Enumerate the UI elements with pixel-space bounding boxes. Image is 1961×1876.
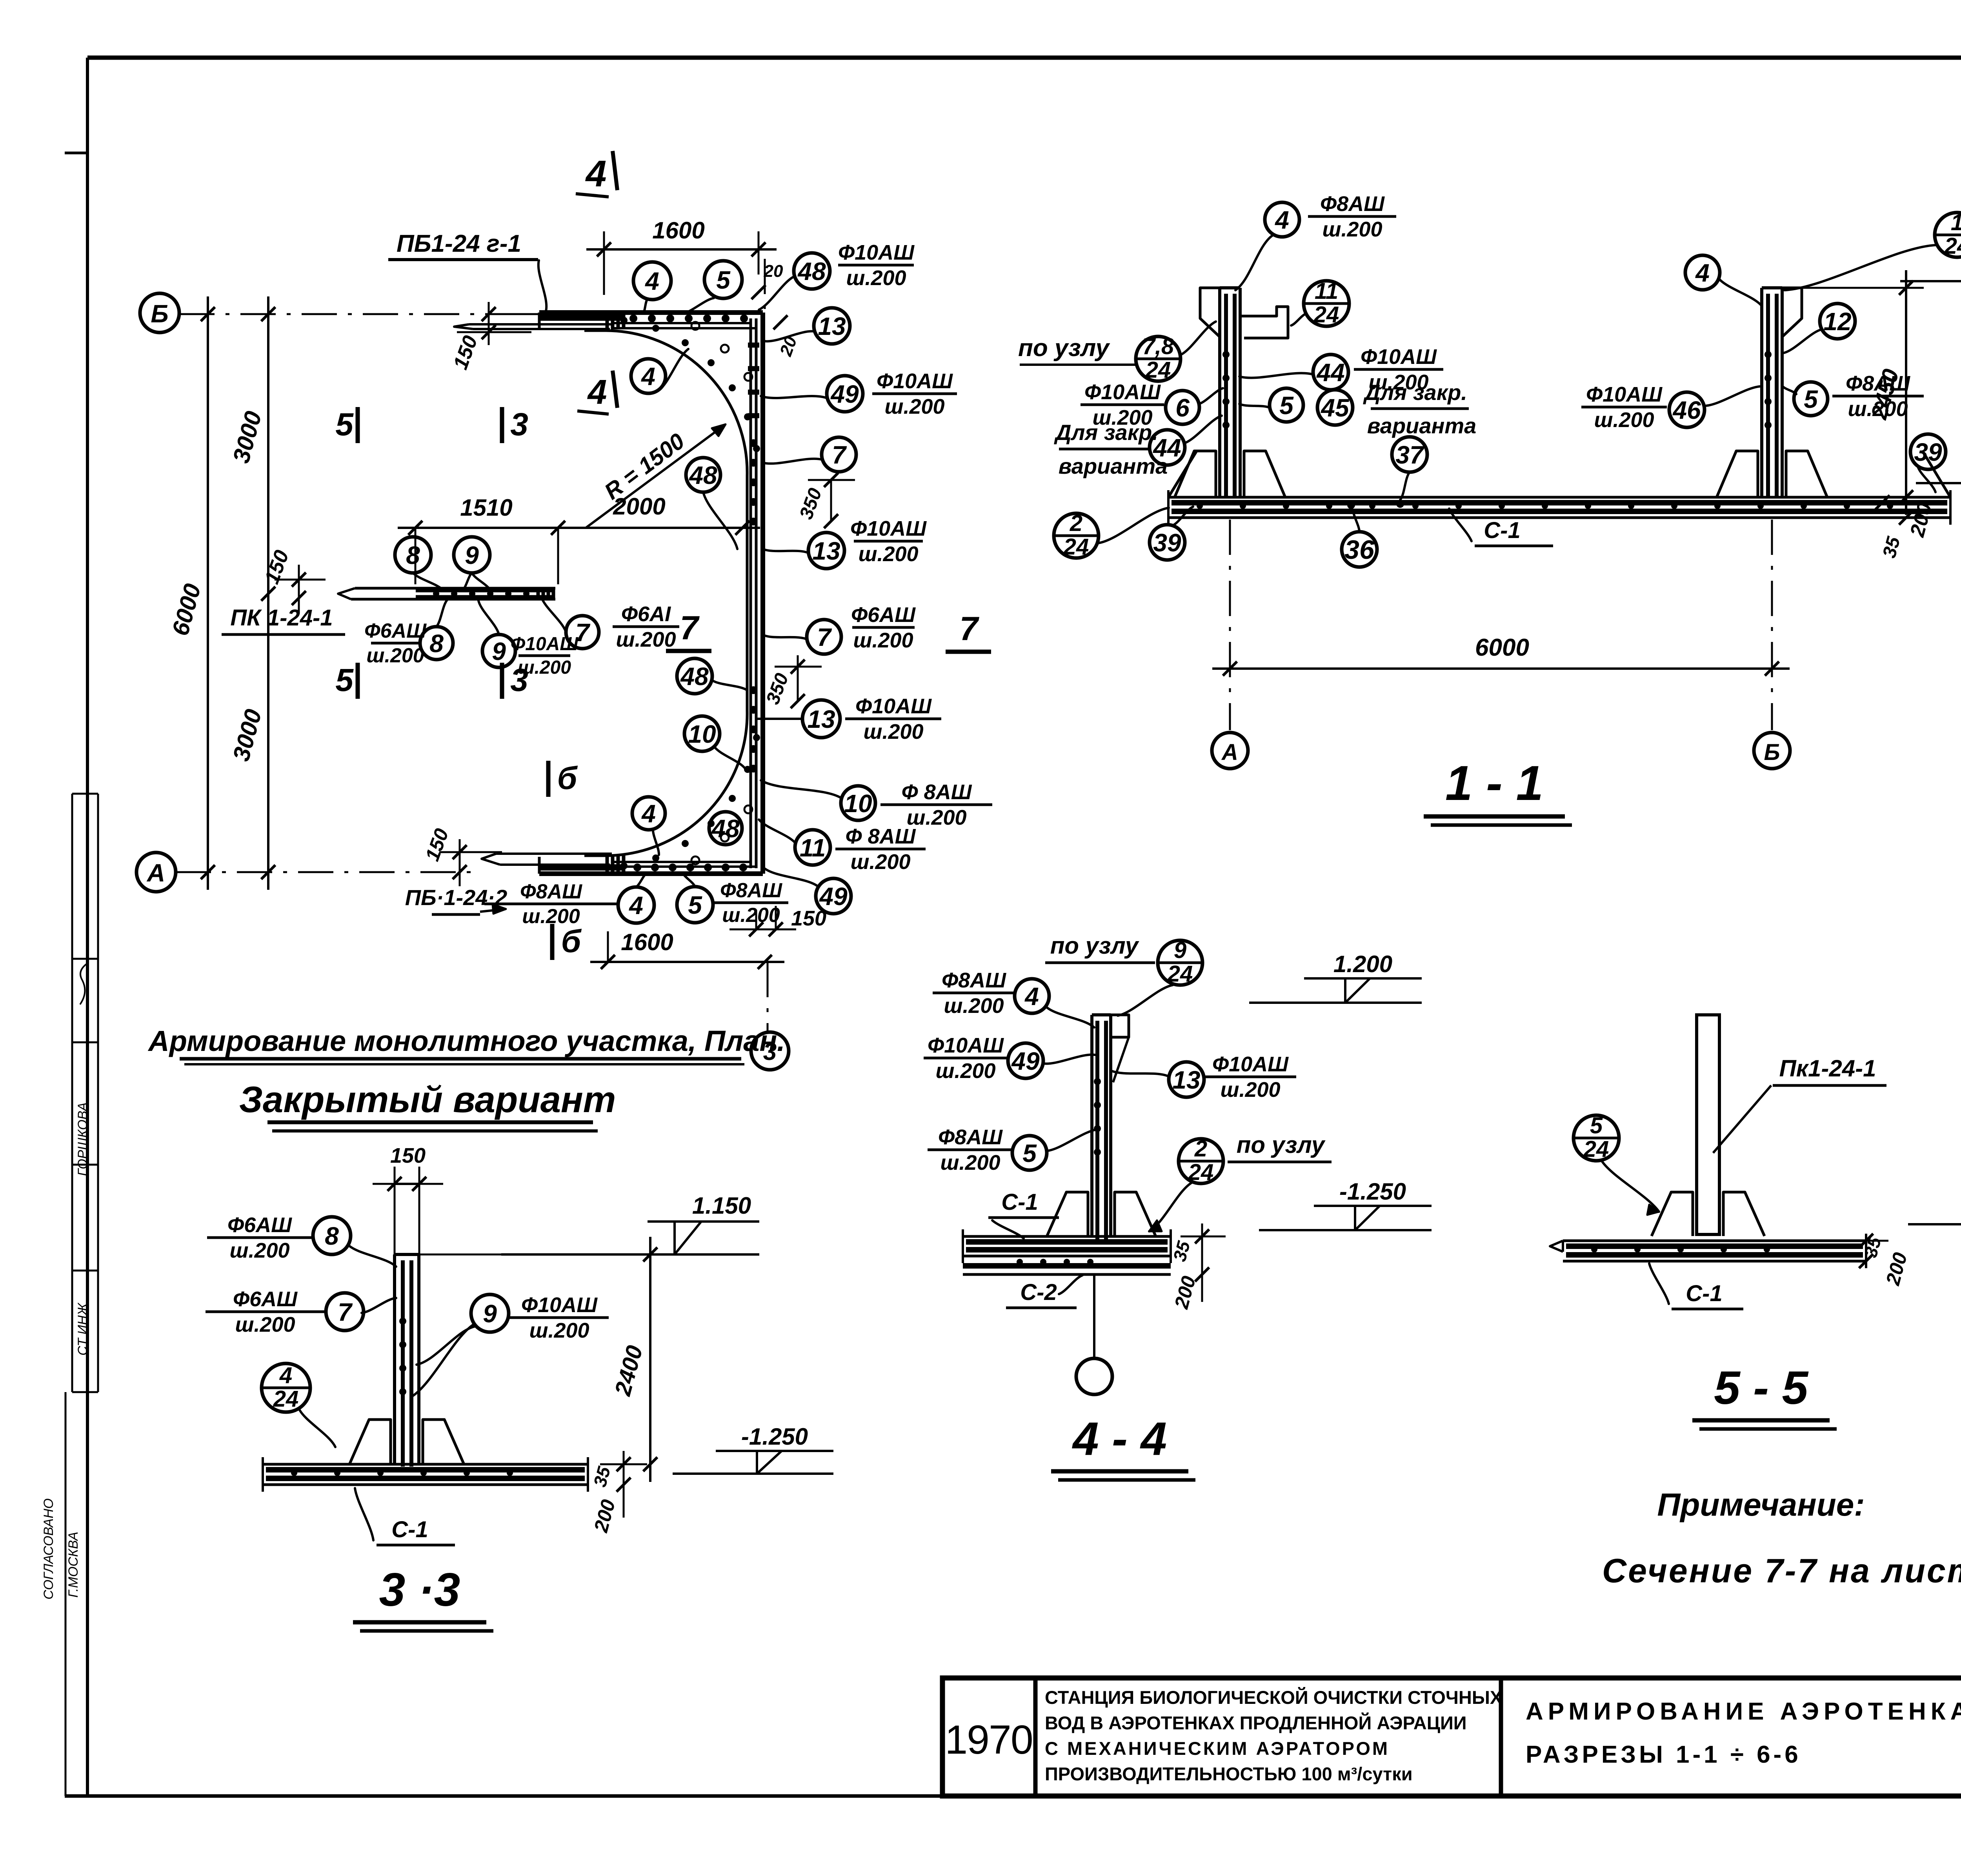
balloon 5 top wall bbox=[704, 261, 742, 298]
svg-text:б: б bbox=[561, 923, 582, 959]
top wall slab edge pair with taper bbox=[469, 323, 612, 325]
svg-text:ш.200: ш.200 bbox=[1220, 1078, 1280, 1102]
balloon 8 above stub bbox=[395, 537, 431, 573]
svg-text:С-1: С-1 bbox=[1001, 1189, 1038, 1215]
svg-text:4: 4 bbox=[640, 362, 655, 391]
stamp strip lower line bbox=[65, 1392, 67, 1796]
svg-text:Примечание:: Примечание: bbox=[1657, 1487, 1865, 1523]
svg-text:Ф10АШ: Ф10АШ bbox=[855, 694, 932, 718]
balloon 46 w label 1-1 bbox=[1669, 392, 1705, 427]
axis extension right 1-1 bbox=[1771, 520, 1773, 730]
section 5-5 slab bbox=[1563, 1240, 1866, 1242]
section 1-1 slab left chamfer bbox=[1168, 452, 1196, 497]
balloon 1/24 1-1 bbox=[1935, 213, 1961, 257]
label F10AIII sh200 stub with balloon 9 bbox=[518, 654, 570, 657]
balloon 44 w label 1-1 bbox=[1313, 354, 1348, 390]
svg-text:Ф10АШ: Ф10АШ bbox=[928, 1034, 1004, 1057]
svg-text:Ф8АШ: Ф8АШ bbox=[938, 1125, 1003, 1149]
balloon 5 1-1 left bbox=[1270, 388, 1303, 422]
svg-text:7: 7 bbox=[575, 618, 591, 647]
svg-text:1600: 1600 bbox=[621, 929, 673, 955]
section 5-5 pedestal bbox=[1652, 1192, 1693, 1236]
corner arc top bbox=[606, 331, 747, 476]
balloon 44b w label 1-1 bbox=[1150, 430, 1185, 465]
balloon 2/24 po uzlu 4-4 bbox=[1179, 1139, 1223, 1183]
svg-text:24: 24 bbox=[1063, 534, 1089, 560]
svg-text:1.200: 1.200 bbox=[1333, 951, 1392, 977]
top wall dots bbox=[629, 314, 637, 322]
stamp signature scribble bbox=[80, 963, 88, 1004]
corner concrete dots bottom bbox=[620, 862, 628, 869]
bottom wall outer face bbox=[539, 871, 763, 876]
section mark 3 lower bbox=[500, 663, 504, 699]
svg-text:Ф6АШ: Ф6АШ bbox=[227, 1213, 292, 1237]
right wall inner face bbox=[746, 476, 749, 711]
svg-text:СТ ИНЖ: СТ ИНЖ bbox=[75, 1302, 90, 1356]
bottom wall slab edge pair with taper bbox=[496, 853, 612, 855]
svg-text:36: 36 bbox=[1344, 535, 1375, 565]
svg-text:7: 7 bbox=[959, 610, 979, 647]
svg-text:Ф6АШ: Ф6АШ bbox=[233, 1287, 298, 1311]
svg-text:Ф10АШ: Ф10АШ bbox=[1084, 380, 1161, 404]
balloon 7 right lower bbox=[807, 620, 841, 654]
svg-text:11: 11 bbox=[1315, 278, 1338, 304]
svg-text:Ф10АШ: Ф10АШ bbox=[521, 1293, 598, 1317]
label F8AIII sh200 left of balloon 4 bbox=[484, 903, 618, 905]
svg-text:48: 48 bbox=[680, 662, 709, 691]
svg-text:5 - 5: 5 - 5 bbox=[1714, 1362, 1809, 1414]
top wall inner face stub bbox=[584, 329, 606, 332]
balloon 6 w label 1-1 bbox=[1166, 391, 1199, 424]
svg-text:ш.200: ш.200 bbox=[846, 266, 906, 290]
svg-text:С-1: С-1 bbox=[1484, 518, 1520, 543]
svg-text:Ф8АШ: Ф8АШ bbox=[720, 879, 782, 902]
svg-text:9: 9 bbox=[465, 541, 479, 569]
svg-text:11: 11 bbox=[800, 834, 826, 862]
svg-text:по узлу: по узлу bbox=[1237, 1132, 1326, 1158]
svg-text:С-1: С-1 bbox=[391, 1517, 428, 1542]
svg-text:4: 4 bbox=[587, 373, 607, 411]
section mark 3 upper bbox=[500, 407, 504, 443]
fold mark left bbox=[65, 152, 87, 155]
section 4-4 lower mesh band bbox=[963, 1263, 1171, 1269]
balloon 7 stub bbox=[566, 616, 599, 649]
axis B circle 1-1 bbox=[1754, 733, 1790, 769]
svg-text:Ф10АШ: Ф10АШ bbox=[1212, 1053, 1289, 1076]
svg-text:7,8: 7,8 bbox=[1142, 334, 1174, 359]
svg-text:9: 9 bbox=[483, 1300, 497, 1328]
svg-text:С-2: С-2 bbox=[1020, 1280, 1057, 1305]
section mark 6 lower bbox=[550, 924, 555, 960]
svg-text:6: 6 bbox=[1175, 394, 1190, 422]
svg-text:5: 5 bbox=[1279, 391, 1294, 420]
svg-text:Ф6АI: Ф6АI bbox=[621, 602, 671, 626]
svg-text:Ф10АШ: Ф10АШ bbox=[838, 241, 915, 264]
svg-text:7: 7 bbox=[832, 441, 847, 469]
svg-text:13: 13 bbox=[812, 537, 840, 565]
top wall rebar thick segment bbox=[540, 314, 624, 321]
svg-text:ГОРШКОВА: ГОРШКОВА bbox=[75, 1102, 90, 1176]
section 4-4 wall top step bbox=[1111, 1015, 1129, 1037]
balloon 8 w label 3-3 bbox=[313, 1217, 351, 1254]
balloon 2/24 1-1 bbox=[1054, 513, 1099, 558]
balloon 4 w label 1-1 left bbox=[1265, 202, 1299, 237]
balloon 45 w label 1-1 bbox=[1317, 390, 1353, 425]
svg-text:13: 13 bbox=[818, 312, 846, 340]
svg-text:24: 24 bbox=[1188, 1160, 1214, 1185]
svg-text:А: А bbox=[1221, 740, 1238, 765]
top wall outer face bbox=[539, 310, 763, 315]
section 5-5 slab left taper bbox=[1550, 1241, 1563, 1252]
balloon 4 bottom corner bbox=[632, 797, 665, 830]
svg-text:5: 5 bbox=[716, 266, 731, 294]
svg-text:24: 24 bbox=[1944, 233, 1961, 259]
svg-text:2: 2 bbox=[1194, 1136, 1207, 1162]
svg-text:4: 4 bbox=[644, 267, 659, 295]
svg-text:4: 4 bbox=[628, 891, 643, 920]
svg-text:Г.МОСКВА: Г.МОСКВА bbox=[66, 1532, 81, 1598]
title block dividers bbox=[1033, 1678, 1038, 1796]
svg-text:-1.250: -1.250 bbox=[1339, 1178, 1406, 1205]
svg-text:ш.200: ш.200 bbox=[522, 905, 580, 928]
svg-text:Ф6АШ: Ф6АШ bbox=[364, 620, 427, 642]
balloon 13 corner lower bbox=[802, 700, 840, 738]
axis extension left 1-1 bbox=[1229, 520, 1231, 730]
svg-text:24: 24 bbox=[1313, 302, 1339, 327]
svg-text:10: 10 bbox=[688, 720, 716, 748]
dimension 150 left of A axis bbox=[459, 839, 461, 886]
svg-text:37: 37 bbox=[1395, 441, 1425, 469]
svg-text:варианта: варианта bbox=[1059, 454, 1168, 478]
svg-text:13: 13 bbox=[1172, 1066, 1200, 1094]
label F8AIII sh200 for 11 bbox=[835, 848, 926, 851]
svg-text:Ф 8АШ: Ф 8АШ bbox=[845, 825, 916, 848]
svg-text:ПБ1-24 г-1: ПБ1-24 г-1 bbox=[397, 230, 521, 257]
svg-text:4: 4 bbox=[1024, 982, 1039, 1011]
frame top border bbox=[87, 56, 1961, 60]
balloon 48 top right bbox=[794, 253, 830, 289]
svg-text:СТАНЦИЯ БИОЛОГИЧЕСКОЙ ОЧИСТКИ: СТАНЦИЯ БИОЛОГИЧЕСКОЙ ОЧИСТКИ СТОЧНЫХ bbox=[1045, 1687, 1502, 1708]
svg-text:ш.200: ш.200 bbox=[518, 657, 571, 678]
right wall outer face bbox=[760, 313, 765, 874]
label F10AIII sh200 for 13 mid bbox=[854, 540, 923, 543]
stub wall dots bbox=[433, 591, 439, 597]
section 1-1 bottom slab bbox=[1168, 496, 1950, 499]
svg-text:по узлу: по узлу bbox=[1018, 334, 1111, 362]
axis 3 vertical line bbox=[767, 962, 769, 1031]
axis B circle bbox=[140, 293, 179, 333]
svg-text:ВОД В АЭРОТЕНКАХ ПРОДЛЕННОЙ АЭ: ВОД В АЭРОТЕНКАХ ПРОДЛЕННОЙ АЭРАЦИИ bbox=[1045, 1712, 1467, 1733]
balloon 11 right lower bbox=[795, 830, 830, 865]
svg-text:ш.200: ш.200 bbox=[853, 629, 913, 652]
balloon 13 right mid bbox=[808, 533, 844, 569]
svg-text:ш.200: ш.200 bbox=[529, 1319, 589, 1342]
svg-text:по узлу: по узлу bbox=[1050, 933, 1139, 959]
svg-text:45: 45 bbox=[1320, 394, 1350, 422]
svg-text:3: 3 bbox=[510, 407, 528, 442]
stub wall hatch cluster bbox=[537, 587, 540, 600]
balloon 4 w label 4-4 bbox=[1015, 979, 1049, 1013]
balloon 48 corner lower bbox=[677, 658, 712, 694]
balloon 4 1-1 right bbox=[1685, 255, 1720, 290]
label F10AIII sh200 for 13 lower bbox=[845, 718, 941, 720]
section 1-1 right wall bbox=[1760, 288, 1763, 497]
svg-text:8: 8 bbox=[429, 629, 444, 658]
dimension 6000 vertical bbox=[207, 296, 209, 890]
section 1-1 slab right chamfer bbox=[1923, 452, 1950, 497]
right wall dots lower bbox=[749, 686, 757, 694]
bottom wall hatch cluster bbox=[606, 855, 609, 873]
top wall rebar pair to corner bbox=[612, 322, 751, 324]
dimension 1600 bottom bbox=[590, 961, 784, 963]
section 5-5 panel bbox=[1697, 1015, 1719, 1234]
frame left border bbox=[86, 58, 89, 1796]
balloon 4/24 3-3 bbox=[262, 1363, 310, 1412]
svg-text:ш.200: ш.200 bbox=[944, 994, 1004, 1018]
svg-text:ш.200: ш.200 bbox=[935, 1059, 995, 1083]
svg-text:1510: 1510 bbox=[460, 494, 512, 521]
dimension 350 lower bbox=[797, 655, 799, 701]
svg-text:Б: Б bbox=[1764, 740, 1780, 765]
svg-text:1600: 1600 bbox=[652, 217, 704, 244]
svg-text:Армирование монолитного участк: Армирование монолитного участка, План. bbox=[147, 1025, 785, 1057]
svg-text:-1.250: -1.250 bbox=[741, 1423, 808, 1450]
svg-text:Ф8АШ: Ф8АШ bbox=[942, 969, 1006, 992]
stub wall rebar thick pair bbox=[416, 589, 554, 593]
svg-text:С МЕХАНИЧЕСКИМ АЭРАТОРОМ: С МЕХАНИЧЕСКИМ АЭРАТОРОМ bbox=[1045, 1738, 1390, 1759]
svg-text:ПРОИЗВОДИТЕЛЬНОСТЬЮ 100 м³/сут: ПРОИЗВОДИТЕЛЬНОСТЬЮ 100 м³/сутки bbox=[1045, 1763, 1413, 1784]
svg-text:48: 48 bbox=[711, 814, 740, 843]
dimension 2450 1-1 bbox=[1905, 270, 1907, 515]
corner concrete dots top bbox=[620, 317, 628, 324]
balloon 10 corner bbox=[684, 716, 720, 751]
svg-text:48: 48 bbox=[688, 461, 717, 489]
section 1-1 left wall top bracket bbox=[1240, 307, 1288, 338]
axis A circle bbox=[136, 853, 176, 892]
svg-text:1.150: 1.150 bbox=[692, 1192, 751, 1219]
svg-text:СОГЛАСОВАНО: СОГЛАСОВАНО bbox=[41, 1498, 56, 1600]
svg-text:49: 49 bbox=[830, 380, 859, 408]
svg-text:49: 49 bbox=[1011, 1047, 1040, 1075]
corner arc bottom bbox=[606, 711, 747, 856]
svg-text:24: 24 bbox=[1167, 961, 1193, 987]
bottom wall inner face stub bbox=[584, 854, 606, 857]
svg-text:Б: Б bbox=[151, 300, 168, 328]
svg-text:Ф10АШ: Ф10АШ bbox=[1361, 345, 1437, 369]
stub wall outline bbox=[355, 587, 555, 590]
balloon 5 bottom wall bbox=[677, 887, 713, 923]
svg-text:13: 13 bbox=[807, 705, 835, 733]
axis 3 circle bbox=[751, 1032, 789, 1070]
section 3-3 pedestal bbox=[349, 1420, 391, 1464]
balloon 49 corner lower bbox=[816, 878, 851, 914]
balloon 5 w label 4-4 bbox=[1012, 1136, 1047, 1170]
svg-text:Ф10АШ: Ф10АШ bbox=[850, 517, 927, 540]
dimension 1600 top bbox=[586, 248, 777, 251]
svg-text:5: 5 bbox=[1590, 1113, 1603, 1138]
svg-text:Пк1-24-1: Пк1-24-1 bbox=[1779, 1055, 1876, 1082]
svg-text:5: 5 bbox=[335, 407, 354, 442]
balloon 49 w label 4-4 bbox=[1008, 1043, 1043, 1078]
section 4-4 pedestal bbox=[1047, 1192, 1088, 1236]
label F6AI sh200 bbox=[613, 625, 679, 628]
frame bottom border bbox=[65, 1794, 1961, 1798]
balloon 48 mid corner bbox=[686, 458, 720, 492]
svg-text:Ф6АШ: Ф6АШ bbox=[851, 603, 916, 627]
svg-text:ш.200: ш.200 bbox=[229, 1239, 289, 1262]
balloon 48 bottom corner bbox=[709, 812, 742, 845]
section 3-3 slab bbox=[263, 1463, 588, 1466]
svg-text:Ф 8АШ: Ф 8АШ bbox=[901, 780, 972, 804]
label F8AIII sh200 right of balloon 5 bbox=[714, 902, 788, 904]
label F6AIII sh200 stub with balloon 8 bbox=[371, 642, 420, 645]
svg-text:9: 9 bbox=[1174, 938, 1186, 963]
svg-text:А: А bbox=[146, 859, 165, 887]
svg-text:46: 46 bbox=[1672, 396, 1701, 424]
bottom wall rebar thick segment bbox=[540, 864, 624, 871]
dimension 150 top left bbox=[488, 302, 490, 345]
svg-text:РАЗРЕЗЫ 1-1 ÷ 6-6: РАЗРЕЗЫ 1-1 ÷ 6-6 bbox=[1526, 1741, 1801, 1768]
dimension 2400 3-3 bbox=[649, 1237, 651, 1482]
svg-text:ш.200: ш.200 bbox=[722, 904, 780, 927]
bottom wall rebar pair to corner bbox=[612, 861, 751, 863]
section mark 6 upper bbox=[546, 761, 551, 797]
svg-text:5: 5 bbox=[1804, 385, 1818, 413]
svg-text:4 - 4: 4 - 4 bbox=[1072, 1412, 1167, 1465]
svg-text:24: 24 bbox=[1145, 357, 1171, 383]
axis A line bbox=[176, 871, 480, 873]
balloon 7 w label 3-3 bbox=[326, 1293, 364, 1331]
bottom wall dots bbox=[633, 863, 641, 871]
svg-text:ш.200: ш.200 bbox=[884, 395, 944, 418]
right wall rebar pair bbox=[749, 318, 752, 868]
label F10AIII sh200 for 49 bbox=[872, 393, 957, 395]
svg-text:20: 20 bbox=[764, 262, 783, 281]
svg-text:44: 44 bbox=[1316, 358, 1344, 387]
section 4-4 upper slab bbox=[963, 1235, 1171, 1238]
svg-text:АРМИРОВАНИЕ АЭРОТЕНКА: АРМИРОВАНИЕ АЭРОТЕНКА bbox=[1526, 1698, 1961, 1725]
svg-text:9: 9 bbox=[492, 637, 506, 665]
right wall dots upper bbox=[749, 439, 757, 447]
svg-text:48: 48 bbox=[797, 257, 826, 285]
svg-text:2000: 2000 bbox=[613, 493, 665, 520]
svg-text:4: 4 bbox=[1274, 206, 1289, 234]
dimension 150 3-3 top bbox=[395, 1183, 419, 1185]
svg-text:ш.200: ш.200 bbox=[863, 720, 923, 743]
svg-text:ш.200: ш.200 bbox=[1322, 218, 1382, 241]
dimension 200 1-1 bbox=[1899, 511, 1913, 525]
balloon 37 1-1 bbox=[1392, 437, 1427, 472]
svg-text:ПК 1-24-1: ПК 1-24-1 bbox=[230, 605, 333, 631]
svg-text:Ф10АШ: Ф10АШ bbox=[877, 369, 953, 393]
balloon 49 right bbox=[827, 376, 863, 412]
svg-text:ш.200: ш.200 bbox=[940, 1151, 1000, 1174]
svg-text:8: 8 bbox=[406, 541, 420, 569]
balloon 12 1-1 bbox=[1820, 304, 1855, 339]
svg-text:5: 5 bbox=[1022, 1139, 1037, 1167]
label F10AIII sh200 for 48 top bbox=[838, 264, 914, 267]
balloon 9 below stub bbox=[482, 634, 515, 667]
svg-text:12: 12 bbox=[1823, 307, 1851, 336]
svg-text:1 - 1: 1 - 1 bbox=[1445, 756, 1543, 811]
dimension 3000 3000 vertical bbox=[267, 296, 269, 890]
balloon 13 w label 4-4 bbox=[1169, 1062, 1204, 1097]
svg-text:10: 10 bbox=[844, 789, 872, 818]
section 4-4 wall bbox=[1090, 1015, 1093, 1236]
svg-text:7: 7 bbox=[338, 1298, 353, 1326]
svg-text:3 ·3: 3 ·3 bbox=[379, 1563, 460, 1616]
svg-text:6000: 6000 bbox=[1475, 634, 1529, 661]
svg-text:8: 8 bbox=[325, 1222, 339, 1250]
svg-text:5: 5 bbox=[335, 662, 354, 698]
svg-text:Сечение 7-7 на листе АС-24.: Сечение 7-7 на листе АС-24. bbox=[1602, 1552, 1961, 1590]
svg-text:б: б bbox=[557, 760, 578, 796]
svg-text:39: 39 bbox=[1914, 438, 1942, 466]
balloon 4 top wall bbox=[633, 262, 671, 300]
title block outline bbox=[942, 1678, 1961, 1796]
balloon 13 right upper bbox=[814, 308, 850, 344]
bottom wall left end bbox=[538, 857, 541, 874]
stamp strip boxes bbox=[72, 793, 98, 795]
balloon 4 bottom wall bbox=[618, 887, 654, 923]
svg-text:150: 150 bbox=[791, 907, 826, 930]
balloon 39 1-1 right bbox=[1910, 434, 1946, 469]
dimension 1510 2000 bbox=[398, 527, 760, 529]
svg-text:4: 4 bbox=[1695, 259, 1710, 287]
svg-text:С-1: С-1 bbox=[1686, 1281, 1722, 1306]
dimension 150 stub bbox=[292, 573, 306, 587]
balloon 5 w label 1-1 right bbox=[1794, 382, 1828, 416]
dimension 150 bottom right bbox=[729, 929, 796, 931]
balloon 36 1-1 bbox=[1342, 532, 1377, 567]
svg-text:7: 7 bbox=[680, 609, 700, 647]
svg-text:ш.200: ш.200 bbox=[1594, 408, 1654, 432]
svg-text:39: 39 bbox=[1153, 529, 1181, 557]
label F8AIII sh200 for 10 bbox=[880, 803, 992, 806]
svg-text:Ф10АШ: Ф10АШ bbox=[1586, 383, 1663, 406]
top wall hatch cluster bbox=[606, 312, 609, 329]
balloon 7 right upper bbox=[822, 437, 856, 472]
svg-text:ш.200: ш.200 bbox=[366, 644, 424, 667]
dimension 35 200 3-3 bbox=[617, 1457, 631, 1471]
svg-text:ш.200: ш.200 bbox=[616, 628, 676, 651]
balloon 39 1-1 left bbox=[1150, 525, 1185, 560]
section 1-1 left wall bbox=[1218, 288, 1221, 497]
svg-text:4: 4 bbox=[585, 153, 607, 195]
balloon 10 right lower bbox=[841, 786, 875, 820]
svg-text:2: 2 bbox=[1070, 511, 1082, 536]
label F6AIII sh200 for 7 lower bbox=[852, 626, 915, 629]
svg-text:24: 24 bbox=[273, 1386, 299, 1412]
svg-text:Ф8АШ: Ф8АШ bbox=[1320, 192, 1385, 216]
section 1-1 right pedestal bbox=[1717, 451, 1758, 497]
svg-text:Для закр.: Для закр. bbox=[1054, 420, 1158, 445]
radius arrow R=1500 bbox=[586, 424, 726, 527]
dimension 350 right upper bbox=[830, 480, 832, 521]
right wall rebar dashes upper bbox=[748, 343, 759, 348]
svg-text:4: 4 bbox=[641, 800, 656, 828]
svg-text:Ф8АШ: Ф8АШ bbox=[520, 880, 582, 903]
svg-text:ш.200: ш.200 bbox=[235, 1313, 295, 1336]
svg-text:150: 150 bbox=[390, 1144, 426, 1167]
svg-text:варианта: варианта bbox=[1367, 413, 1477, 438]
dimension 35 200 4-4 bbox=[1195, 1229, 1209, 1243]
balloon 8 below stub bbox=[420, 627, 453, 660]
axis A circle 1-1 bbox=[1212, 733, 1248, 769]
svg-text:Закрытый вариант: Закрытый вариант bbox=[239, 1079, 616, 1120]
axis circle empty 4-4 bbox=[1093, 1274, 1095, 1359]
balloon 5/24 5-5 bbox=[1574, 1115, 1619, 1161]
